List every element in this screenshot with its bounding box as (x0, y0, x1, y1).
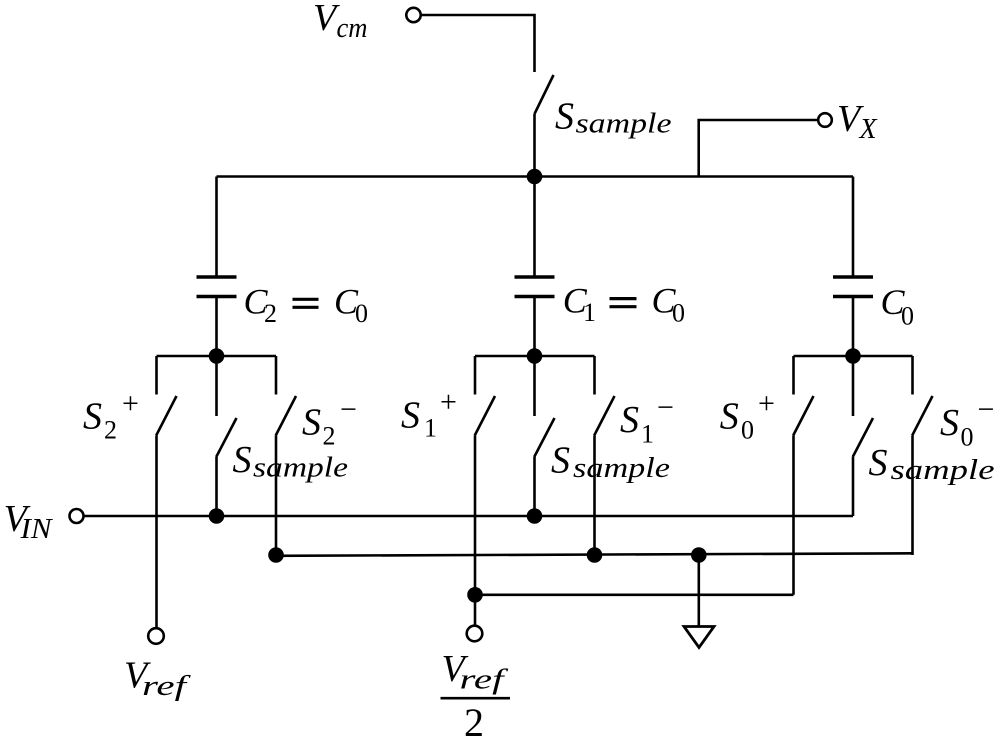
switch S1- upper lead (593, 356, 596, 395)
wire bus to C0 (852, 177, 855, 278)
junction line2/ground (691, 547, 707, 563)
wire S1+ to Vref2 (474, 436, 477, 627)
wire C0 to node0 (852, 297, 855, 357)
switch Ssample0 upper lead (852, 356, 855, 416)
switch Ssample1 upper lead (533, 356, 536, 416)
junction VIN/Ssample2 (209, 508, 225, 524)
switch Ssample1 blade (534, 418, 554, 457)
svg-text:Vref: Vref (124, 655, 191, 702)
svg-text:S1+: S1+ (401, 386, 457, 443)
wire C1 to node1 (533, 297, 536, 357)
junction line2/S2- (268, 547, 284, 563)
wire VIN line (84, 515, 854, 518)
switch S2- blade (276, 396, 296, 436)
junction node1 (527, 348, 543, 364)
switch Ssample0 blade (853, 418, 873, 457)
capacitor C0 (833, 277, 873, 297)
wire C2 to node2 (215, 297, 218, 357)
wire S0+ to line3 (792, 436, 795, 595)
junction node0 (845, 348, 861, 364)
node Vcm terminal (406, 8, 420, 22)
wire Vx tap (699, 120, 818, 177)
ground (684, 627, 714, 648)
svg-text:Vcm: Vcm (313, 0, 368, 44)
capacitor C1 (515, 277, 555, 297)
svg-text:VX: VX (837, 98, 878, 145)
wire top switch to bus (533, 114, 536, 177)
wire line3 (Vref/2 net) (475, 593, 794, 596)
switch Ssample2 blade (216, 418, 236, 457)
svg-text:Ssample: Ssample (555, 96, 672, 140)
svg-text:S0−: S0− (940, 393, 994, 452)
wire Ssample2 to VIN (215, 457, 218, 516)
wire Vcm to top switch (421, 15, 535, 72)
switch S0+ upper lead (792, 356, 795, 395)
wire S2+ to Vref (155, 436, 158, 629)
svg-text:S2+: S2+ (83, 387, 139, 445)
wire group0 bar (794, 355, 913, 358)
junction VIN/Ssample1 (527, 508, 543, 524)
svg-text:C2C0: C2C0 (244, 281, 369, 328)
wire group1 bar (475, 355, 595, 358)
switch S2+ blade (156, 396, 176, 436)
svg-text:Ssample: Ssample (869, 442, 995, 486)
svg-text:VIN: VIN (4, 498, 53, 545)
wire ground stub (697, 555, 700, 627)
switch S1+ upper lead (474, 356, 477, 395)
switch Ssample (top) blade (535, 75, 554, 114)
wire line2 (Vref net) (276, 553, 913, 556)
switch S0+ blade (793, 396, 813, 436)
svg-text:S0+: S0+ (720, 387, 775, 445)
junction line3/S1+ (467, 587, 483, 603)
svg-text:C1C0: C1C0 (563, 280, 685, 327)
svg-text:S2−: S2− (302, 393, 357, 451)
switch S0- blade (912, 396, 932, 436)
wire bus to C1 (533, 177, 536, 278)
svg-text:S1−: S1− (620, 391, 674, 449)
switch S1+ blade (475, 396, 495, 436)
wire bus to C2 (215, 177, 218, 278)
node VIN terminal (70, 509, 84, 523)
junction bus/Ssample (527, 169, 543, 185)
junction node2 (209, 348, 225, 364)
switch S2+ upper lead (155, 356, 158, 395)
capacitor C2 (197, 277, 237, 297)
label Vref/2 fraction bar (441, 697, 511, 700)
wire Ssample1 to VIN (533, 457, 536, 516)
switch Ssample2 upper lead (215, 356, 218, 416)
wire S2- to line2 (275, 436, 278, 556)
wire S1- to line2 (593, 436, 596, 556)
node Vref terminal (148, 628, 164, 644)
junction line2/S1- (587, 547, 603, 563)
svg-text:Vref: Vref (442, 648, 509, 696)
node Vx terminal (818, 113, 832, 127)
wire S0- to line2 (911, 436, 914, 556)
svg-text:2: 2 (464, 700, 484, 743)
wire group2 bar (157, 355, 277, 358)
wire Ssample0 to VIN (852, 457, 855, 516)
svg-text:C0: C0 (881, 282, 915, 331)
switch S0- upper lead (911, 356, 914, 395)
switch S1- blade (594, 396, 614, 436)
node Vref/2 terminal (467, 626, 483, 642)
switch S2- upper lead (275, 356, 278, 395)
wire top bus (217, 175, 854, 178)
